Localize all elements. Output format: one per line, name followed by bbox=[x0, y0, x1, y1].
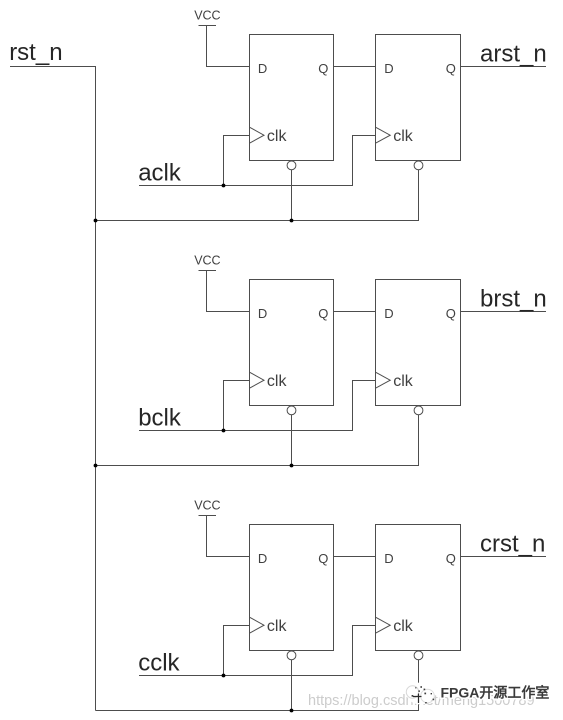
svg-text:D: D bbox=[384, 306, 393, 321]
svg-text:brst_n: brst_n bbox=[480, 286, 547, 313]
svg-text:clk: clk bbox=[393, 373, 414, 390]
svg-text:Q: Q bbox=[446, 306, 456, 321]
svg-text:arst_n: arst_n bbox=[480, 41, 547, 68]
svg-text:clk: clk bbox=[267, 128, 288, 145]
svg-text:VCC: VCC bbox=[194, 499, 220, 513]
svg-text:Q: Q bbox=[318, 306, 328, 321]
svg-text:crst_n: crst_n bbox=[480, 531, 545, 558]
svg-text:bclk: bclk bbox=[138, 405, 182, 432]
svg-text:clk: clk bbox=[393, 128, 414, 145]
svg-text:cclk: cclk bbox=[138, 650, 180, 677]
svg-text:VCC: VCC bbox=[194, 254, 220, 268]
svg-text:FPGA开源工作室: FPGA开源工作室 bbox=[441, 685, 550, 701]
svg-text:D: D bbox=[384, 61, 393, 76]
svg-text:D: D bbox=[258, 61, 267, 76]
svg-text:clk: clk bbox=[393, 618, 414, 635]
svg-text:D: D bbox=[258, 306, 267, 321]
svg-text:aclk: aclk bbox=[138, 160, 182, 187]
svg-text:Q: Q bbox=[318, 551, 328, 566]
svg-text:clk: clk bbox=[267, 618, 288, 635]
svg-text:clk: clk bbox=[267, 373, 288, 390]
svg-text:Q: Q bbox=[446, 61, 456, 76]
svg-text:rst_n: rst_n bbox=[9, 39, 62, 66]
svg-text:D: D bbox=[258, 551, 267, 566]
svg-text:Q: Q bbox=[446, 551, 456, 566]
svg-text:VCC: VCC bbox=[194, 9, 220, 23]
svg-text:Q: Q bbox=[318, 61, 328, 76]
svg-text:D: D bbox=[384, 551, 393, 566]
